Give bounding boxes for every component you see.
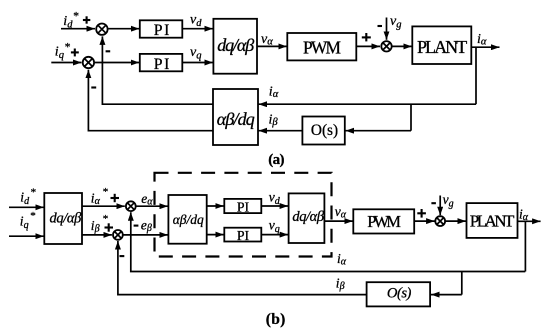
- wire feedback vertical from output A: [475, 47, 477, 104]
- svg-text:PLANT: PLANT: [470, 211, 515, 230]
- minus sign at v_g B: [431, 202, 436, 204]
- summer B1: [126, 201, 136, 211]
- wire O(s) B to summer B2: [118, 241, 367, 295]
- summer B2: [113, 230, 123, 240]
- plus sign at summer A1: [83, 16, 90, 23]
- svg-text:*: *: [31, 186, 36, 198]
- block PWM A: [287, 33, 356, 60]
- svg-text:dq/αβ: dq/αβ: [50, 210, 83, 226]
- plus sign at summer B3: [417, 209, 426, 218]
- block dq/ab B left: [44, 193, 82, 244]
- minus sign below summer A2: [91, 86, 96, 88]
- dashed box: [155, 173, 332, 257]
- wire i_q* to summer A2: [51, 62, 81, 64]
- wire dq/ab B2 to PWM B: [324, 220, 352, 222]
- wire PI A1 to dq/ab A: [182, 28, 213, 30]
- block dq/ab B2: [289, 193, 325, 243]
- svg-text:PI: PI: [237, 200, 250, 215]
- wire junction down to O(s) row A: [410, 104, 412, 131]
- wire i_q* to dq/ab B: [9, 235, 44, 237]
- summer B3: [435, 216, 445, 226]
- wire feedback vertical from output B: [524, 221, 526, 271]
- wire ab/dq B to PI B2: [207, 234, 224, 236]
- wire i_alpha feedback to summer B1: [131, 212, 526, 271]
- wire i_d* to summer A1: [61, 28, 95, 30]
- wire summer B3 to PLANT B: [446, 220, 466, 222]
- wire PLANT B output: [518, 220, 541, 222]
- wire ab/dq A top output to summer A1: [102, 36, 213, 104]
- block PI A1: [140, 20, 183, 39]
- wire PI B1 to dq/ab B2: [261, 205, 288, 207]
- svg-text:PI: PI: [154, 22, 170, 39]
- block dq/ab A: [213, 19, 257, 74]
- svg-text:PWM: PWM: [303, 37, 341, 57]
- wire dq/ab B to summer B2: [82, 234, 112, 236]
- svg-text:*: *: [65, 42, 71, 54]
- wire summer B1 to ab/dq B: [136, 205, 168, 207]
- block PLANT A: [412, 26, 471, 64]
- plus sign at summer A3: [362, 33, 371, 41]
- block PI B2: [224, 228, 261, 243]
- block PLANT B: [467, 203, 518, 238]
- svg-text:*: *: [103, 186, 109, 198]
- wire PI A2 to dq/ab A: [182, 62, 213, 64]
- minus sign below summer A1: [106, 50, 111, 52]
- minus sign at v_g A: [378, 25, 383, 27]
- svg-text:PI: PI: [154, 56, 170, 73]
- block PWM B: [353, 209, 414, 233]
- svg-text:O(s): O(s): [387, 285, 412, 301]
- wire into O(s) A: [346, 130, 412, 132]
- minus sign below summer B2: [120, 255, 125, 257]
- wire ab/dq B to PI B1: [207, 205, 224, 207]
- block PI B1: [224, 199, 261, 215]
- plus sign at summer B2: [105, 223, 114, 231]
- plus sign at summer B1: [111, 194, 120, 202]
- svg-text:αβ/dq: αβ/dq: [173, 212, 204, 227]
- svg-text:αβ/dq: αβ/dq: [217, 109, 255, 129]
- wire PWM B to summer B3: [414, 220, 434, 222]
- wire into O(s) B: [431, 294, 462, 296]
- wire junction down to O(s) B: [461, 272, 463, 295]
- wire summer B2 to ab/dq B: [123, 234, 167, 236]
- svg-text:*: *: [103, 213, 109, 225]
- block ab/dq B: [168, 195, 206, 244]
- svg-text:(a): (a): [268, 152, 284, 168]
- plus sign at summer A2: [71, 49, 79, 57]
- svg-text:O(s): O(s): [311, 122, 338, 139]
- wire i_d* to dq/ab B: [9, 206, 44, 208]
- block ab/dq A: [213, 89, 258, 145]
- block PI A2: [140, 54, 183, 73]
- minus sign at summer B1 lower input: [134, 225, 139, 227]
- wire PI B2 to dq/ab B2: [261, 234, 288, 236]
- wire O(s) A to ab/dq A: [259, 130, 303, 132]
- block O(s) B: [367, 282, 431, 306]
- wire PLANT A output: [471, 46, 499, 48]
- svg-text:PLANT: PLANT: [417, 37, 467, 57]
- svg-text:PI: PI: [237, 228, 250, 243]
- summer A2: [83, 57, 94, 68]
- wire ab/dq A bottom output to summer A2: [88, 70, 213, 131]
- wire PWM A to summer A3: [356, 45, 380, 47]
- svg-text:*: *: [73, 10, 79, 22]
- svg-text:(b): (b): [266, 311, 286, 328]
- wire i_alpha feedback into ab/dq A: [259, 103, 477, 105]
- wire v_g B down into summer B3: [439, 196, 441, 216]
- wire dq/ab A to PWM A: [257, 45, 287, 47]
- svg-text:dq/αβ: dq/αβ: [292, 209, 324, 225]
- wire summer A1 to PI A1: [108, 28, 139, 30]
- wire summer A3 to PLANT A: [392, 45, 411, 47]
- svg-text:dq/αβ: dq/αβ: [217, 35, 254, 55]
- wire dq/ab B to summer B1: [82, 205, 125, 207]
- block O(s) A: [302, 117, 344, 145]
- summer A3: [381, 41, 391, 51]
- svg-text:PWM: PWM: [367, 212, 401, 231]
- wire summer A2 to PI A2: [95, 62, 140, 64]
- summer A1: [96, 24, 107, 35]
- wire v_g A down into summer A3: [386, 18, 388, 40]
- svg-text:*: *: [30, 210, 36, 222]
